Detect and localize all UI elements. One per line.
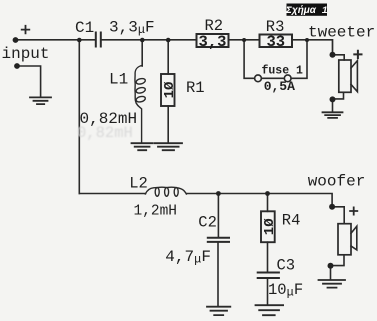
svg-text:C3: C3 bbox=[277, 256, 296, 274]
svg-text:1,2mH: 1,2mH bbox=[134, 203, 178, 219]
svg-text:Σχήμα 1: Σχήμα 1 bbox=[285, 4, 328, 17]
svg-text:tweeter: tweeter bbox=[308, 24, 375, 42]
svg-text:0,82mH: 0,82mH bbox=[77, 124, 133, 142]
svg-text:1Ø: 1Ø bbox=[262, 218, 278, 235]
svg-text:3,3: 3,3 bbox=[199, 33, 227, 51]
svg-text:33: 33 bbox=[266, 33, 285, 51]
svg-text:0,5A: 0,5A bbox=[264, 79, 295, 94]
svg-text:C2: C2 bbox=[198, 214, 217, 232]
svg-text:C1: C1 bbox=[75, 19, 94, 37]
svg-text:1Ø: 1Ø bbox=[162, 81, 178, 98]
svg-text:fuse 1: fuse 1 bbox=[262, 65, 304, 78]
svg-text:R1: R1 bbox=[186, 79, 205, 97]
svg-text:input: input bbox=[2, 45, 50, 63]
svg-text:10μF: 10μF bbox=[268, 281, 303, 300]
svg-text:L1: L1 bbox=[109, 71, 128, 89]
svg-text:4,7μF: 4,7μF bbox=[165, 248, 211, 267]
svg-text:woofer: woofer bbox=[308, 173, 366, 191]
svg-text:R4: R4 bbox=[282, 212, 301, 230]
svg-text:L2: L2 bbox=[129, 174, 148, 192]
svg-text:3,3μF: 3,3μF bbox=[109, 19, 155, 38]
